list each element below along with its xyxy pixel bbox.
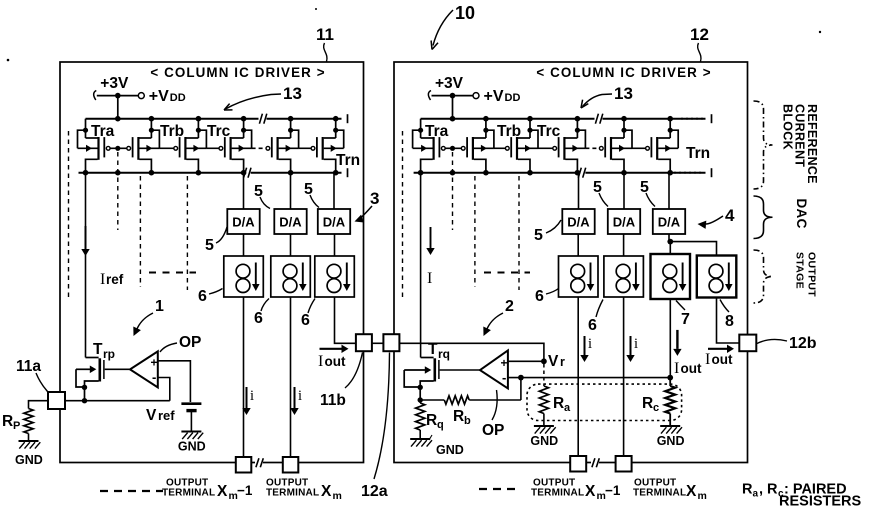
- ground below Rq: [410, 435, 464, 457]
- svg-text:12: 12: [690, 25, 709, 44]
- dashed gate drop block 12: [452, 152, 454, 230]
- feedback wire Rb: [420, 378, 521, 405]
- label Trq: [428, 341, 450, 361]
- svg-text:DD: DD: [505, 92, 521, 104]
- svg-text:< COLUMN IC DRIVER >: < COLUMN IC DRIVER >: [150, 65, 325, 80]
- svg-text:12b: 12b: [789, 335, 817, 352]
- output terminal Xm-1 block 11: [236, 457, 252, 473]
- label 11: [316, 25, 334, 62]
- title block 11: [150, 65, 325, 80]
- D/A converter 3 block 11: [318, 209, 350, 234]
- VDD wire block 12: [428, 91, 479, 119]
- label 6 box2 block 12: [588, 300, 603, 335]
- wire D/A to current source 1 block 12: [577, 234, 579, 256]
- svg-text:DAC: DAC: [794, 199, 809, 229]
- label Vr: [548, 353, 565, 370]
- label i2 block 12: [634, 336, 638, 352]
- svg-text:I: I: [318, 353, 323, 370]
- svg-text:Trb: Trb: [497, 123, 521, 140]
- label 5 D/A2 block 11: [254, 183, 270, 209]
- transistor Trb block 11: [174, 119, 207, 173]
- transistor Tra block 12: [413, 119, 446, 173]
- svg-text:+V: +V: [484, 88, 504, 105]
- svg-text:TERMINAL: TERMINAL: [531, 488, 584, 499]
- svg-text:i: i: [588, 336, 592, 352]
- svg-text:12a: 12a: [361, 483, 388, 500]
- D/A converter 2 block 12: [608, 209, 640, 234]
- label Trc block 12: [537, 123, 561, 140]
- resistor Ra: [539, 386, 548, 426]
- current source 2 block 12: [604, 256, 644, 297]
- svg-text:I: I: [705, 351, 710, 368]
- terminal 11a: [48, 392, 65, 409]
- label 12a: [361, 353, 390, 501]
- wire rail to D/A 2 block 12: [623, 173, 625, 209]
- label Rc: [642, 395, 659, 414]
- svg-text:X: X: [217, 483, 228, 500]
- svg-text:R: R: [2, 413, 13, 430]
- dashed gate drop block 11: [117, 152, 119, 230]
- wire rail to D/A 3 block 12: [668, 173, 670, 209]
- brace output stage: [754, 250, 773, 303]
- break mark bottom rail block 11: [243, 168, 251, 178]
- dashed drain stub Trb block 11: [186, 176, 188, 290]
- label Trn block 12: [686, 145, 710, 162]
- label Vref: [146, 407, 175, 424]
- current arrow i1 block 11: [242, 387, 250, 415]
- svg-text:Trb: Trb: [160, 123, 184, 140]
- D/A converter 2 block 11: [274, 209, 306, 234]
- svg-text:i: i: [250, 388, 254, 404]
- label Trn block 11: [336, 152, 360, 169]
- label Rq: [426, 412, 444, 431]
- dashes mid block 11: [149, 272, 196, 274]
- label 11b: [320, 353, 363, 410]
- svg-text:P: P: [13, 420, 20, 432]
- top rail junction dots block 12: [450, 116, 673, 122]
- svg-text:Tra: Tra: [425, 123, 449, 140]
- svg-text:GND: GND: [436, 443, 464, 457]
- D/A converter 1 block 12: [562, 209, 594, 234]
- label I block 12: [427, 270, 432, 287]
- Iout arrow block 11: [320, 345, 349, 353]
- svg-text:out: out: [681, 361, 702, 376]
- svg-text:5: 5: [205, 237, 214, 254]
- label Tra block 12: [425, 123, 449, 140]
- label 7 box3 block 12: [676, 301, 690, 329]
- svg-text:i: i: [634, 336, 638, 352]
- svg-text:c: c: [653, 402, 659, 414]
- label i1 block 12: [588, 336, 592, 352]
- top rail junction dots block 11: [115, 116, 339, 122]
- label Rb: [453, 408, 471, 427]
- output terminal Xm block 12: [616, 456, 632, 472]
- current source 4 block 12: [697, 256, 737, 298]
- svg-text:V: V: [146, 407, 157, 424]
- label 5 D/A1 block 12: [534, 220, 561, 244]
- svg-text:D/A: D/A: [613, 215, 636, 230]
- dashed drain stub Trb block 12: [518, 176, 520, 290]
- svg-text:-: -: [152, 370, 156, 385]
- output terminal Xm block 11: [283, 457, 299, 473]
- svg-text:i: i: [298, 388, 302, 404]
- label 6 box3 block 11: [301, 299, 315, 330]
- label 5 D/A3 block 12: [640, 179, 655, 207]
- svg-text:TERMINAL: TERMINAL: [266, 488, 319, 499]
- svg-text:D/A: D/A: [279, 215, 302, 230]
- svg-text:I: I: [427, 270, 432, 287]
- ground below Ra: [530, 426, 558, 448]
- svg-text:T: T: [93, 341, 103, 358]
- label 12b: [757, 335, 817, 352]
- label 5 D/A3 block 11: [304, 181, 319, 208]
- bottom rail junction dots block 11: [83, 170, 339, 176]
- label output terminal Xm-1 block 11: [162, 478, 253, 503]
- I arrow block 12: [426, 227, 434, 255]
- svg-text:RESISTERS: RESISTERS: [779, 494, 862, 507]
- Iout arrow current source 3: [673, 330, 681, 356]
- feedback wire 11a node: [65, 400, 170, 402]
- resistor Rq: [416, 400, 425, 439]
- label Iout to 12b: [705, 351, 733, 368]
- column IC driver block 12 outline: [394, 62, 748, 463]
- svg-text:X: X: [686, 483, 697, 500]
- svg-text:-: -: [502, 370, 506, 385]
- dashed line left block 12: [402, 131, 404, 300]
- dashed mark bottom block 11: [100, 490, 163, 492]
- transistor Trq: [404, 358, 439, 403]
- label Tra block 11: [91, 123, 115, 140]
- label 13 block 11: [224, 84, 302, 110]
- label Trb block 12: [497, 123, 521, 140]
- resistor Rp: [24, 401, 48, 441]
- svg-text:R: R: [453, 408, 464, 425]
- svg-text:BLOCK: BLOCK: [780, 104, 794, 150]
- transistor Trc block 12: [553, 119, 586, 173]
- svg-text:ref: ref: [106, 272, 124, 287]
- wire 12a to Vr node: [399, 343, 544, 361]
- VDD wire block 11: [94, 91, 145, 119]
- label 2: [483, 298, 514, 336]
- svg-text:a: a: [753, 489, 759, 500]
- Iout wire block 11: [335, 297, 356, 343]
- svg-text:5: 5: [254, 183, 263, 200]
- label Rp: [2, 413, 20, 432]
- svg-text:out: out: [325, 354, 346, 369]
- label output terminal Xm-1 block 12: [531, 478, 621, 503]
- label Iout current source 3: [674, 360, 702, 377]
- svg-text:4: 4: [725, 206, 735, 225]
- break mark bottom rail block 12: [577, 168, 585, 178]
- output terminal Xm-1 block 12: [570, 456, 586, 472]
- svg-text:+V: +V: [149, 88, 169, 105]
- output wire 1 block 11: [243, 297, 245, 457]
- wire rail to D/A 1 block 12: [578, 173, 580, 209]
- svg-text:DD: DD: [170, 92, 186, 104]
- svg-text:6: 6: [254, 310, 263, 327]
- current arrow i1 block 12: [580, 336, 588, 362]
- svg-text:5: 5: [534, 227, 543, 244]
- I wire block 12: [420, 173, 422, 358]
- label 6 box2 block 11: [254, 299, 269, 328]
- wire op-amp minus input feedback: [158, 378, 170, 401]
- label Trp: [93, 341, 115, 361]
- transistor T5 block 11: [266, 119, 299, 173]
- label 11a: [16, 358, 48, 392]
- label i2 block 11: [298, 388, 302, 404]
- break mark top rail block 11: [259, 114, 267, 124]
- resistor Rc: [665, 378, 675, 426]
- svg-text:+: +: [151, 356, 158, 370]
- svg-text:+3V: +3V: [100, 75, 129, 92]
- transistor Tra block 11: [78, 119, 111, 173]
- label 13 block 12: [581, 84, 633, 108]
- svg-text:ref: ref: [158, 408, 175, 423]
- label output terminal Xm block 12: [633, 478, 707, 503]
- svg-text:3: 3: [370, 189, 379, 208]
- svg-text:q: q: [437, 419, 444, 431]
- Iref wire: [85, 173, 87, 358]
- svg-text:Trc: Trc: [537, 123, 561, 140]
- dotted box paired resistors Ra Rc: [527, 384, 682, 420]
- label 4: [698, 206, 736, 229]
- gate bus block 11: [110, 146, 311, 151]
- wire D/A to current source 1 block 11: [243, 234, 245, 256]
- dashed wire Vr to Ra: [543, 364, 545, 386]
- dashed mark bottom block 12: [479, 488, 521, 490]
- current arrow i2 block 12: [626, 336, 634, 362]
- wire rail to D/A 3 block 11: [333, 173, 335, 209]
- dashed drain stub T2 block 12: [474, 176, 476, 287]
- current source 2 block 11: [271, 256, 311, 297]
- wire D/A to current source 3 block 11: [334, 234, 336, 256]
- svg-text:I: I: [100, 271, 105, 288]
- label 5 D/A1 block 11: [205, 227, 227, 254]
- label OP block 11: [160, 334, 201, 352]
- +3V label block 12: [435, 75, 464, 92]
- svg-text:D/A: D/A: [323, 215, 346, 230]
- svg-text:STAGE: STAGE: [794, 252, 806, 289]
- svg-text:I: I: [674, 360, 679, 377]
- wire op-amp minus input node: [508, 375, 673, 381]
- brace DAC: [754, 196, 773, 239]
- dashed drain stub T2 block 11: [139, 176, 141, 287]
- ground below Rp: [15, 441, 43, 467]
- transistor Trc block 11: [219, 119, 252, 173]
- svg-text:TERMINAL: TERMINAL: [162, 488, 215, 499]
- label DAC: [794, 199, 809, 229]
- svg-text:m: m: [333, 490, 342, 502]
- D/A converter 3 block 12: [653, 209, 685, 234]
- svg-text:5: 5: [640, 179, 649, 196]
- label 3: [355, 189, 380, 223]
- label i1 block 11: [250, 388, 254, 404]
- note paired resisters: [742, 482, 862, 510]
- wire op-amp plus input to Vr: [508, 358, 547, 364]
- label Trb block 11: [160, 123, 184, 140]
- terminal 12a: [383, 334, 399, 351]
- svg-text:+: +: [501, 356, 508, 370]
- output wire 2 block 11: [290, 297, 292, 457]
- svg-text:V: V: [548, 353, 559, 370]
- svg-text:6: 6: [535, 288, 544, 305]
- transistor Trn block 12: [646, 119, 679, 173]
- gate bus block 12: [445, 146, 645, 151]
- Iout arrow to 12b: [708, 345, 734, 353]
- wire D/A to current source 2 block 12: [623, 234, 625, 256]
- current source 1 block 12: [559, 256, 599, 297]
- dotted rail continuation bottom block 12: [674, 172, 704, 174]
- svg-text:R: R: [642, 395, 653, 412]
- svg-text:T: T: [428, 341, 438, 358]
- svg-text:X: X: [585, 483, 596, 500]
- label 1: [133, 298, 164, 336]
- svg-text:OP: OP: [482, 422, 504, 439]
- transistor Trb block 12: [505, 119, 538, 173]
- svg-text:GND: GND: [15, 453, 43, 467]
- +VDD label block 12: [484, 88, 521, 105]
- current source 1 block 11: [224, 256, 263, 297]
- drain bus rail block 11: [79, 168, 348, 177]
- column IC driver block 11 outline: [60, 62, 364, 463]
- svg-text:< COLUMN IC DRIVER >: < COLUMN IC DRIVER >: [536, 65, 711, 80]
- svg-text:11: 11: [316, 25, 334, 44]
- wire current source 4 to 12b: [717, 298, 740, 344]
- svg-text:6: 6: [588, 317, 597, 334]
- svg-text:−1: −1: [605, 483, 621, 498]
- wire D/A3 branch to current source 4 block 12: [670, 242, 716, 256]
- wire rail to D/A 2 block 11: [290, 173, 292, 209]
- svg-text:b: b: [464, 415, 471, 427]
- current arrow i2 block 11: [290, 387, 298, 415]
- op-amp OP block 12: [440, 350, 508, 388]
- svg-text:rp: rp: [103, 347, 115, 361]
- label 10: [431, 3, 475, 50]
- transistor T2 block 12: [461, 119, 494, 173]
- label 6 box1 block 11: [198, 288, 223, 305]
- svg-text:D/A: D/A: [567, 215, 590, 230]
- output wire 1 block 12: [577, 297, 579, 456]
- svg-text:GND: GND: [530, 434, 558, 448]
- svg-text:7: 7: [681, 311, 690, 328]
- wire rail to D/A 1 block 11: [243, 173, 245, 209]
- dotted rail continuation top block 12: [681, 118, 704, 120]
- bottom rail junction dots block 12: [418, 170, 673, 176]
- ground below Rc: [657, 426, 685, 448]
- svg-text:5: 5: [593, 179, 602, 196]
- battery Vref: [181, 404, 201, 432]
- svg-text:OP: OP: [179, 334, 201, 351]
- dashed line left of Iref block 11: [68, 131, 70, 300]
- svg-text:D/A: D/A: [658, 215, 681, 230]
- +VDD label block 11: [149, 88, 186, 105]
- svg-text:Trc: Trc: [207, 123, 231, 140]
- drain bus rail block 12: [414, 168, 712, 177]
- svg-text:rq: rq: [438, 347, 450, 361]
- break mark top rail block 12: [595, 114, 603, 124]
- wire op-amp plus input to Vref: [158, 361, 191, 402]
- current source 3 block 11: [315, 256, 355, 297]
- transistor Trn block 11: [311, 119, 344, 173]
- label Iout block 11: [318, 353, 346, 370]
- label output stage: [794, 252, 818, 297]
- transistor T2 block 11: [127, 119, 160, 173]
- label 6 box1 block 12: [535, 288, 559, 305]
- output wire 2 block 12: [623, 297, 625, 456]
- svg-text:10: 10: [455, 3, 475, 23]
- svg-text:Trn: Trn: [686, 145, 710, 162]
- terminal 11b: [356, 334, 372, 351]
- svg-text:R: R: [426, 412, 437, 429]
- svg-text:−1: −1: [237, 483, 253, 498]
- svg-text:a: a: [564, 402, 571, 414]
- terminal 12b: [739, 335, 756, 352]
- break between output terminals block 11: [255, 458, 263, 467]
- op-amp OP block 11: [105, 351, 158, 387]
- Iref label: [100, 271, 124, 288]
- wire 11b to 12a: [372, 342, 384, 344]
- svg-text:+3V: +3V: [435, 75, 464, 92]
- brace reference current block: [754, 101, 773, 189]
- dashes mid block 12: [484, 272, 530, 274]
- svg-text:R: R: [742, 482, 753, 498]
- label OP block 12: [482, 390, 504, 439]
- break between output terminals block 12: [591, 458, 599, 467]
- svg-text:13: 13: [283, 84, 302, 103]
- Iref arrow: [81, 226, 89, 256]
- svg-text:D/A: D/A: [232, 215, 255, 230]
- ground below Vref: [178, 432, 206, 454]
- label 8 box4 block 12: [720, 300, 734, 331]
- svg-text:TERMINAL: TERMINAL: [633, 488, 686, 499]
- wire D/A3 to current source 3 block 12: [667, 234, 673, 254]
- svg-text:r: r: [560, 355, 565, 369]
- wire current source 3 to Rc: [669, 299, 671, 378]
- svg-text:13: 13: [614, 84, 633, 103]
- +3V label block 11: [100, 75, 129, 92]
- svg-text:8: 8: [725, 313, 734, 330]
- D/A converter 1 block 11: [227, 209, 259, 234]
- title block 12: [536, 65, 711, 80]
- transistor Trp: [76, 358, 104, 404]
- svg-text:R: R: [553, 395, 564, 412]
- label Trc block 11: [207, 123, 231, 140]
- label reference current block: [780, 104, 819, 184]
- svg-text:6: 6: [198, 288, 207, 305]
- svg-text:Trn: Trn: [336, 152, 360, 169]
- label 5 D/A2 block 12: [593, 179, 608, 207]
- svg-text:2: 2: [505, 298, 514, 315]
- VDD top rail block 11: [86, 114, 348, 123]
- label Ra: [553, 395, 571, 414]
- svg-text:11b: 11b: [320, 392, 346, 409]
- svg-text:1: 1: [155, 298, 164, 315]
- svg-text:, R: , R: [759, 482, 778, 498]
- svg-text:X: X: [321, 483, 332, 500]
- svg-text:11a: 11a: [16, 358, 41, 375]
- svg-text:GND: GND: [657, 434, 685, 448]
- svg-text:out: out: [712, 352, 733, 367]
- svg-text:Tra: Tra: [91, 123, 115, 140]
- VDD top rail block 12: [421, 114, 712, 123]
- svg-text:6: 6: [301, 312, 310, 329]
- speck noise: [7, 8, 822, 61]
- transistor T5 block 12: [599, 119, 632, 173]
- current source 3 block 12: [651, 254, 691, 299]
- label output terminal Xm block 11: [266, 478, 342, 503]
- svg-text:5: 5: [304, 181, 313, 198]
- svg-text:OUTPUT: OUTPUT: [806, 252, 818, 297]
